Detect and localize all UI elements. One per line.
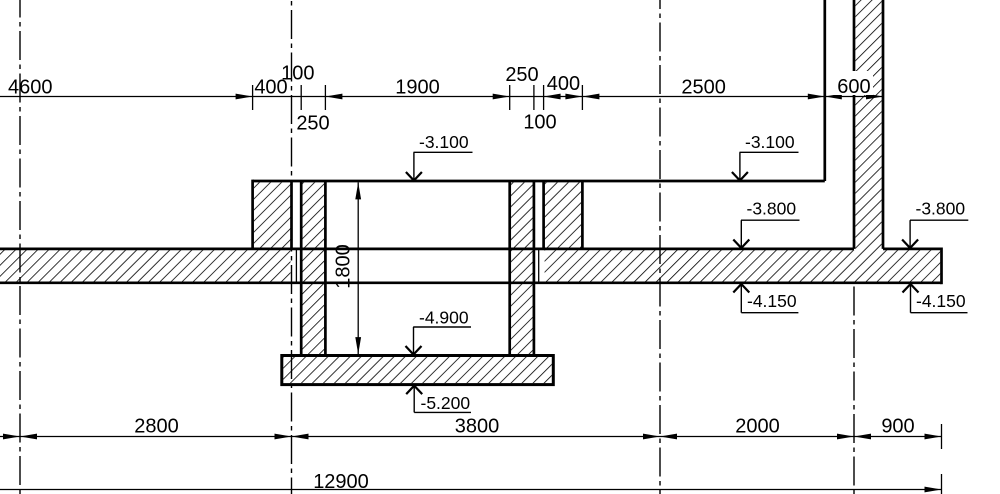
hatched basement wall — [855, 0, 881, 282]
axis line B at x=291.5 — [291, 0, 293, 494]
extension tick x=325.4 — [324, 85, 326, 110]
arrow right at 252.6 — [236, 94, 253, 100]
leader -4.150 right — [911, 312, 968, 314]
axis line D at x=854 below slab — [853, 287, 855, 494]
extension tick x=509.7 — [509, 85, 511, 110]
left pit wall right edge — [324, 181, 327, 356]
svg-text:100: 100 — [281, 63, 314, 85]
arrow left at 824.8 — [825, 94, 842, 100]
arrow right at 824.8 — [808, 94, 825, 100]
arrow right at 883 — [866, 94, 883, 100]
svg-text:250: 250 — [296, 113, 329, 135]
extension tick x=301.2 — [300, 85, 302, 110]
right block left edge — [542, 181, 545, 249]
svg-text:900: 900 — [881, 416, 914, 438]
basement wall right edge — [882, 0, 885, 249]
svg-text:1800: 1800 — [333, 244, 355, 289]
thin joint line in left 100 gap — [295, 250, 297, 282]
hatched slab right portion — [545, 250, 941, 282]
white mask for 600 text — [833, 71, 873, 95]
svg-text:2800: 2800 — [134, 416, 179, 438]
left block right edge — [290, 181, 293, 249]
leader -3.800 left — [741, 219, 800, 221]
svg-text:2000: 2000 — [735, 416, 780, 438]
hatched left upstand block — [254, 182, 291, 281]
arrow left at 582.4 — [582, 94, 599, 100]
floor line at -3.100 — [253, 180, 825, 183]
bottom dimension line — [0, 436, 942, 438]
extension tick x=252.6 — [252, 85, 254, 110]
svg-text:3800: 3800 — [455, 416, 500, 438]
arrow right at 509.7 — [493, 94, 510, 100]
svg-text:-3.100: -3.100 — [745, 132, 795, 152]
arrow down 1800 — [355, 337, 361, 354]
leader -5.200 — [414, 411, 471, 413]
overall dimension line 12900 — [0, 489, 942, 491]
left pit wall left edge — [300, 181, 303, 356]
bowtie arrows at 660 — [660, 434, 677, 440]
svg-text:-5.200: -5.200 — [421, 393, 471, 413]
arrow left at 543.6 — [544, 94, 561, 100]
thin joint line in right 100 gap — [538, 250, 540, 282]
slab bottom line — [0, 281, 942, 284]
svg-text:1900: 1900 — [395, 77, 440, 99]
extension tick x=533.9 — [533, 85, 535, 110]
svg-text:-4.900: -4.900 — [419, 308, 469, 328]
leader -4.150 left — [740, 313, 742, 494]
leader -3.100 right — [740, 151, 799, 153]
leader -4.900 — [413, 326, 471, 328]
extension tick x=543.6 — [543, 85, 545, 110]
hatched right upstand block — [545, 182, 582, 281]
axis line A at x=20 — [19, 0, 21, 494]
svg-text:12900: 12900 — [313, 471, 369, 493]
hatched slab left portion — [0, 250, 291, 282]
right pit wall left edge — [508, 181, 511, 356]
hatched pit base slab — [283, 357, 552, 383]
arrow left at 325.4 — [325, 94, 342, 100]
svg-text:-4.150: -4.150 — [916, 291, 966, 311]
arrow up 1800 — [355, 182, 361, 199]
arrow right at 941.5 bottom — [925, 434, 942, 440]
svg-text:-4.150: -4.150 — [747, 291, 797, 311]
svg-text:-3.800: -3.800 — [916, 199, 966, 219]
pit base slab outline — [282, 356, 554, 385]
svg-text:400: 400 — [547, 73, 580, 95]
leader -3.800 right — [910, 219, 968, 221]
bowtie arrows at 291.5 — [292, 434, 309, 440]
right block right edge — [581, 181, 584, 249]
slab top line left of wall — [0, 248, 854, 251]
svg-text:-3.100: -3.100 — [419, 132, 469, 152]
arrow right at 941.5 overall — [925, 487, 942, 493]
svg-text:4600: 4600 — [8, 77, 53, 99]
left block left edge — [251, 180, 254, 249]
slab right edge — [940, 248, 943, 285]
top dimension line — [0, 96, 883, 98]
vertical dim 1800 line — [357, 182, 359, 354]
svg-text:250: 250 — [505, 64, 538, 86]
right pit wall right edge — [533, 181, 536, 356]
slab top line right of wall — [883, 248, 942, 251]
hatched right pit wall — [511, 182, 533, 354]
bowtie arrows at 854 — [854, 434, 871, 440]
extension tick x=582.4 — [581, 85, 583, 110]
extension tick x=941.5 — [941, 424, 943, 449]
axis line C at x=660 — [659, 0, 661, 494]
hatched left pit wall — [302, 182, 324, 354]
bowtie arrows at 20 — [20, 434, 37, 440]
svg-text:2500: 2500 — [681, 77, 726, 99]
svg-text:600: 600 — [837, 76, 870, 98]
leader -3.100 left — [414, 151, 473, 153]
wall inner face line — [823, 0, 826, 181]
svg-text:100: 100 — [523, 112, 556, 134]
arrow right at 582.4 — [565, 94, 582, 100]
svg-text:-3.800: -3.800 — [747, 199, 797, 219]
basement wall left edge — [853, 0, 856, 249]
